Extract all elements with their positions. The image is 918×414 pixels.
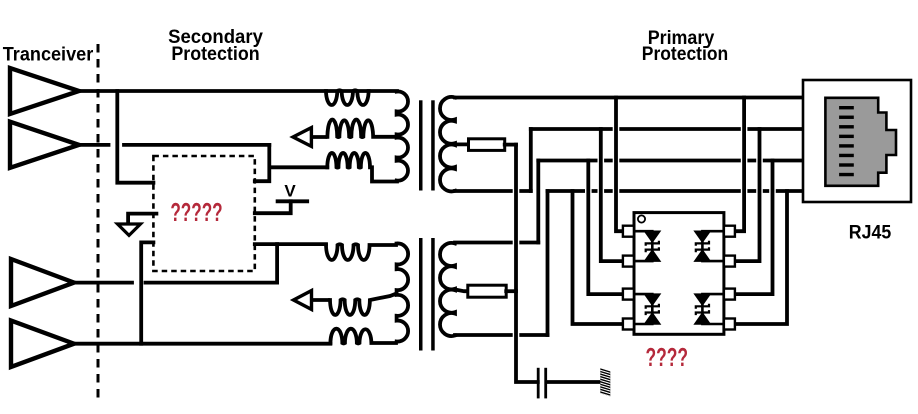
capacitor C1 (Bob Smith termination)	[537, 368, 540, 399]
RJ45 contact pins	[839, 106, 854, 176]
wire w4 (RJ45 pin line 4)	[548, 189, 804, 193]
svg-text:Protection: Protection	[171, 43, 259, 65]
IC internal wire top-left pair	[635, 231, 652, 261]
wire resistor R1 to cap node	[505, 143, 516, 147]
svg-text:????: ????	[646, 344, 689, 372]
ground stub from box	[128, 214, 156, 223]
wire riser IC pin R1 to w1	[735, 98, 744, 232]
wire w1 (RJ45 pin line 1)	[455, 96, 803, 100]
buffer amplifier A1 (transceiver ch1+)	[10, 68, 79, 114]
wire riser w4 to IC pin L4	[573, 191, 623, 324]
wire common termination node to capacitor	[516, 145, 538, 382]
transformer T1 left vertical winding	[397, 92, 408, 181]
wire A3 output to riser	[74, 281, 277, 285]
resistor R1 (termination)	[469, 139, 505, 151]
wire A1 output to transformer T1 winding a	[79, 89, 397, 93]
wire T2 secondary bottom	[455, 333, 548, 337]
ground symbol (open arrow)	[118, 224, 141, 235]
wire A2 output to node X	[79, 143, 269, 147]
wire riser w1 to IC pin L1	[616, 98, 623, 232]
transformer T1 winding a coil (line side top)	[326, 90, 369, 105]
wire box pin bottom-left down to A4 wire	[141, 242, 153, 343]
buffer amplifier A4 (transceiver ch2-)	[11, 321, 74, 368]
IC internal wire bottom-left pair	[635, 294, 652, 324]
wire w3 corner riser to T2 secondary top	[536, 161, 540, 243]
wire T1 winding c L-connection	[372, 167, 397, 181]
arrow (surge path) upper	[311, 135, 327, 139]
svg-text:Protection: Protection	[642, 43, 728, 65]
TVS diode pair D2 (top-right)	[701, 231, 704, 261]
buffer amplifier A2 (transceiver ch1-)	[10, 122, 79, 168]
svg-text:?????: ?????	[170, 199, 222, 227]
transformer T2 winding a coil	[326, 244, 396, 260]
wire riser IC pin R2 to w2	[735, 129, 760, 261]
svg-text:V: V	[284, 182, 296, 201]
wire riser w2 to IC pin L2	[601, 129, 623, 261]
wire T1 center tap to resistor R1	[455, 142, 469, 146]
wire riser w3 to IC pin L3	[588, 161, 623, 295]
transformer T1 core	[419, 100, 423, 190]
wire node X down / row3 / box pin top-right	[255, 145, 327, 181]
IC U1 pin-1 indicator	[638, 215, 645, 222]
svg-text:Tranceiver: Tranceiver	[3, 44, 94, 66]
wire capacitor to chassis ground	[547, 380, 600, 384]
V supply rail bar	[278, 199, 308, 203]
wire w3 (RJ45 pin line 3)	[538, 159, 803, 163]
wire w4 corner riser to T2 secondary bottom	[546, 191, 550, 335]
IC U1 pin R3	[724, 289, 735, 300]
IC U1 pin R4	[724, 319, 735, 330]
chassis ground (hatched)	[598, 367, 613, 400]
wire T1 secondary bottom to w2 corner	[455, 189, 531, 193]
IC U1 pin R2	[724, 256, 735, 267]
primary protection IC U1 (body)	[634, 213, 724, 335]
TVS diode pair D3 (bottom-left)	[651, 294, 654, 324]
wire T2 secondary top	[455, 241, 538, 245]
transformer T1 secondary winding	[440, 97, 455, 191]
wire A4 output to transformer T2 winding c	[74, 342, 330, 346]
wire T2 center tap to resistor R2	[455, 290, 468, 292]
arrow (surge path) lower	[312, 298, 331, 302]
transformer T1 winding c coil (bottom)	[327, 153, 370, 168]
svg-text:RJ45: RJ45	[849, 221, 892, 243]
buffer amplifier A3 (transceiver ch2+)	[11, 259, 74, 306]
transformer T2 core	[419, 238, 423, 351]
wire w2 (RJ45 pin line 2)	[531, 127, 803, 131]
wire riser A1 node to box pin (top-left)	[117, 91, 153, 183]
IC internal wire top-right pair	[702, 231, 723, 261]
transformer T1 winding b coil (center)	[327, 119, 394, 137]
wire w2 left corner riser	[529, 129, 533, 191]
wire riser IC pin R4 to w4	[735, 191, 787, 324]
dashed boundary line	[97, 44, 100, 403]
TVS diode pair D4 (bottom-right)	[701, 294, 704, 324]
IC U1 pin L2	[623, 256, 634, 267]
RJ45 connector J1 (outer box)	[803, 80, 911, 202]
RJ45 jack profile	[825, 98, 896, 186]
IC U1 pin L3	[623, 289, 634, 300]
IC U1 pin L4	[623, 319, 634, 330]
wire riser IC pin R3 to w3	[735, 161, 773, 295]
transformer T2 left vertical winding	[397, 243, 409, 341]
wire box pin bottom-right to transformer T2 winding a	[255, 242, 326, 246]
resistor R2 (termination)	[468, 285, 506, 297]
transformer T2 winding c coil (bottom)	[330, 329, 396, 344]
TVS diode pair D1 (top-left)	[651, 231, 654, 261]
wire box pin mid-right to V rail	[255, 201, 291, 213]
IC U1 pin L1	[623, 226, 634, 237]
secondary protection IC (dashed box)	[153, 156, 254, 271]
transformer T2 winding b coil (center)	[330, 295, 394, 316]
IC internal wire bottom-right pair	[702, 294, 723, 324]
wire resistor R2 to cap node	[506, 289, 516, 293]
transformer T2 secondary winding	[440, 243, 455, 336]
wire riser A3 to transformer T2 row1 wire	[275, 244, 279, 283]
IC U1 pin R1	[724, 226, 735, 237]
